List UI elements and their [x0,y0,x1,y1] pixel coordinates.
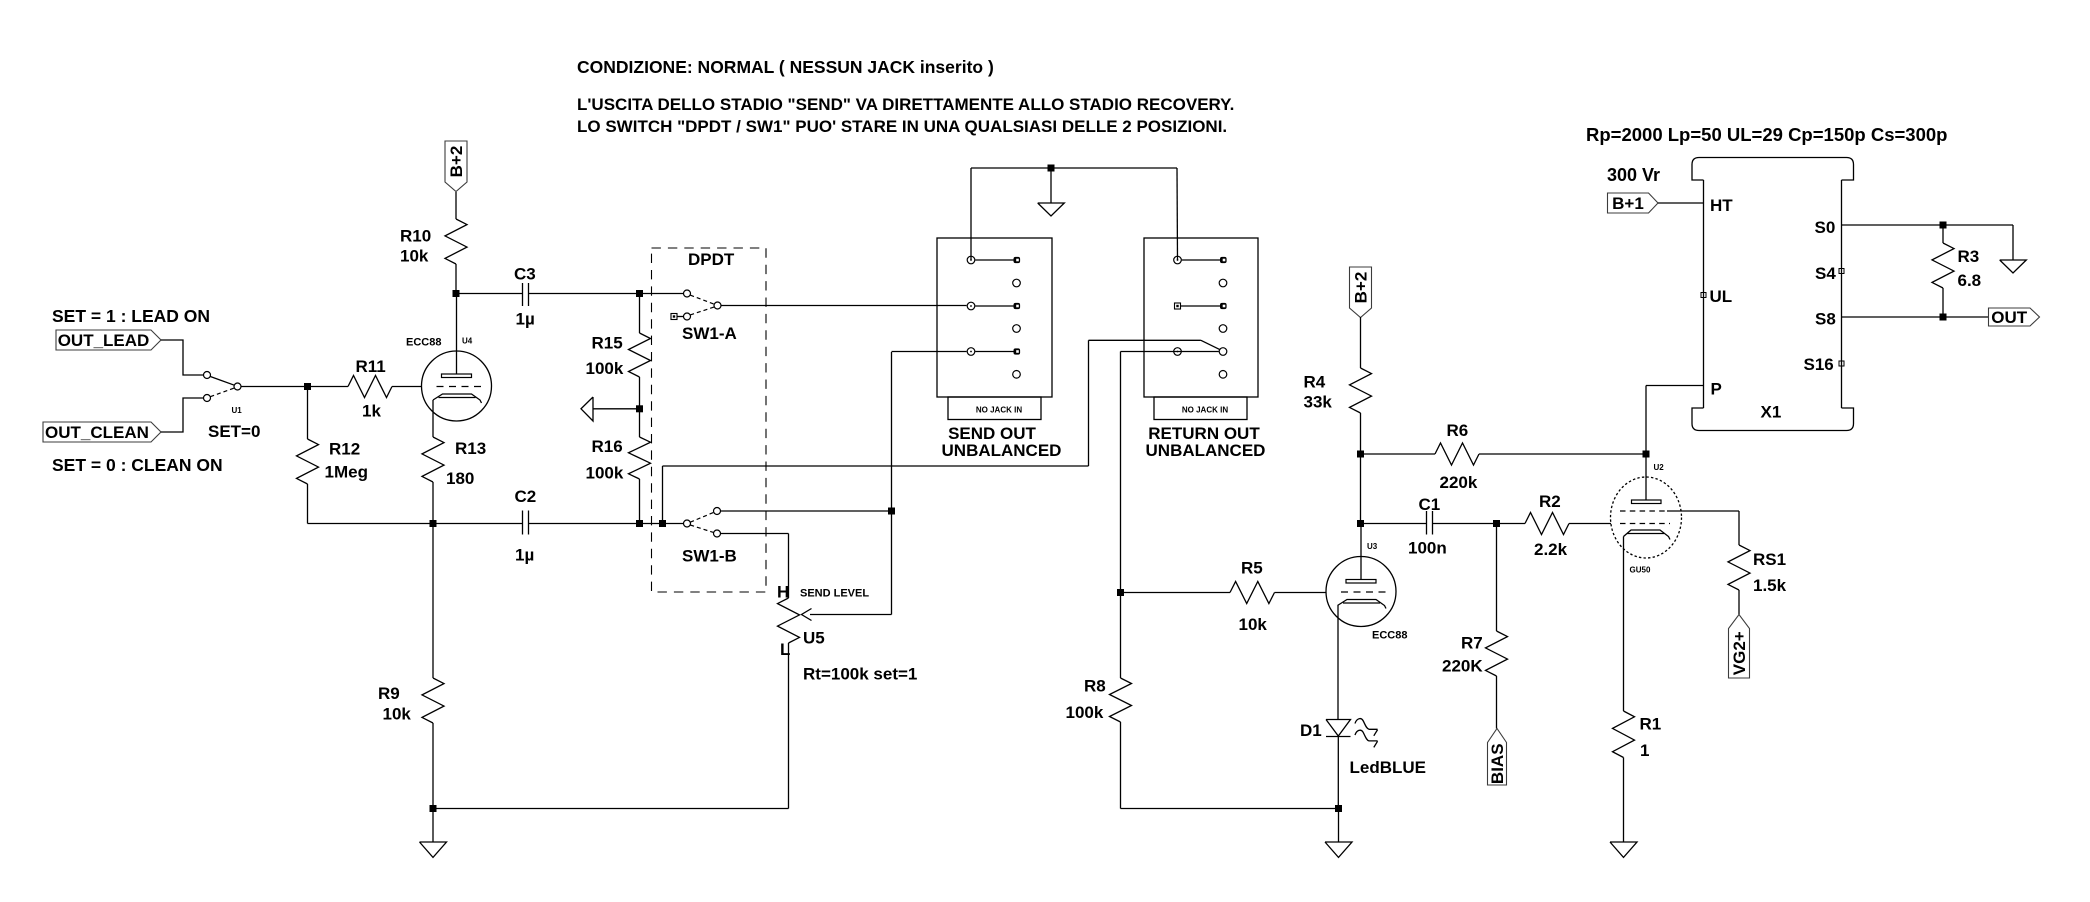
svg-text:R3: R3 [1958,247,1980,266]
svg-text:LO SWITCH "DPDT / SW1" PUO' ST: LO SWITCH "DPDT / SW1" PUO' STARE IN UNA… [577,117,1227,136]
tube U4 ECC88 triode [422,294,492,422]
junction R4 bottom [1357,451,1364,458]
junction S8-R3 [1940,314,1947,321]
svg-text:C2: C2 [515,487,537,506]
net flag B+1 [1608,193,1659,213]
arrow port (divider tap) [581,397,640,421]
label LedBLUE [1350,758,1427,777]
resistor R9 [422,678,444,809]
note: SET=0 CLEAN ON [52,455,223,475]
ground (bottom left) [420,809,447,858]
svg-text:L'USCITA DELLO STADIO "SEND" V: L'USCITA DELLO STADIO "SEND" VA DIRETTAM… [577,95,1234,114]
wire to SW1-A [640,293,684,295]
svg-text:UNBALANCED: UNBALANCED [942,441,1062,460]
junction R13 row [430,520,437,527]
value 1.5k [1753,576,1787,595]
label R6 [1447,421,1469,440]
value 220K [1442,657,1483,676]
svg-text:R15: R15 [592,334,623,353]
wire to send jack tip [892,351,967,353]
label DPDT [688,250,735,269]
power flag B+2 (right) [1350,267,1372,318]
net flag OUT_CLEAN [43,422,161,442]
wire S0 to ground [2012,225,2014,260]
net flag OUT [1989,308,2040,327]
svg-text:UNBALANCED: UNBALANCED [1146,441,1266,460]
jack J2 NO JACK IN box [1154,397,1247,420]
note: SET=1 LEAD ON [52,306,210,326]
svg-text:U4: U4 [462,337,473,346]
value 1 [1640,741,1649,760]
label X1 [1761,403,1782,422]
svg-text:100k: 100k [586,359,624,378]
DPDT dashed box [652,248,767,592]
value 100n [1408,539,1447,558]
label UNBALANCED (return) [1146,441,1266,460]
value 100k (R15) [586,359,624,378]
label L [780,640,790,659]
potentiometer U5 [778,598,800,643]
switch U1 [204,372,243,416]
node anode junction [453,290,460,297]
net flag BIAS [1488,729,1508,786]
note Rt=100k set=1 [803,665,917,684]
junction SW1-B input [659,520,666,527]
label S8 [1815,310,1836,329]
jack J2 RETURN OUT [1144,238,1258,397]
junction U2 anode [1643,451,1650,458]
wire anode to P [1646,386,1704,455]
junction DPDT rail top [636,290,643,297]
label R11 [356,357,386,376]
svg-text:B+2: B+2 [447,146,466,178]
wire bottom return to pot [433,643,789,809]
svg-text:GU50: GU50 [1630,566,1651,575]
wiper arrow head [802,609,812,621]
wire U2 cathode to R1 [1623,537,1625,712]
label U4 [462,337,473,346]
svg-text:10k: 10k [400,247,429,266]
value 10k [400,247,429,266]
label C1 [1419,495,1441,514]
label R3 [1958,247,1980,266]
label C3 [514,265,536,284]
svg-text:RS1: RS1 [1753,550,1786,569]
label UL [1710,287,1733,306]
svg-text:R12: R12 [329,440,360,459]
resistor R15 [629,294,651,409]
svg-text:S16: S16 [1804,355,1834,374]
wire bottom center [1121,808,1339,810]
value 2.2k [1534,540,1568,559]
value 100k (R16) [586,464,624,483]
svg-text:R4: R4 [1304,373,1326,392]
svg-text:300 Vr: 300 Vr [1607,165,1660,185]
svg-text:SET = 1 : LEAD ON: SET = 1 : LEAD ON [52,306,210,326]
svg-text:DPDT: DPDT [688,250,735,269]
node A junction [304,383,311,390]
junction top ground [1048,165,1055,172]
svg-text:B+1: B+1 [1612,194,1644,213]
value 1Meg [325,463,368,482]
resistor R2 [1525,513,1569,535]
svg-text:1µ: 1µ [515,546,534,565]
wire SW1-B NO to send-level node [721,510,892,512]
switch SW1-B [684,508,721,538]
wire jack grounds [971,168,1178,260]
value 1u [516,310,535,329]
junction bottom left [430,805,437,812]
svg-text:U2: U2 [1654,463,1665,472]
wire R4 to R6 [1361,453,1436,455]
pin UL square [1701,293,1706,298]
label R1 [1640,715,1662,734]
wire anode to C3 [456,293,523,295]
svg-text:R16: R16 [592,437,623,456]
svg-text:S4: S4 [1815,264,1836,283]
wire B+2 to R4 [1360,317,1362,368]
wire node to R5 [1121,592,1231,594]
ground (center) [1325,809,1352,858]
label SW1-A [682,324,737,343]
svg-text:R13: R13 [455,439,486,458]
svg-text:NO JACK IN: NO JACK IN [1182,406,1228,415]
svg-text:L: L [780,640,790,659]
label SET=0 [208,422,260,441]
wire anode to C1 [1361,523,1427,525]
wire C2 row left [308,523,523,525]
wire return tip to R5 node [1121,352,1219,593]
wire OUT_CLEAN to switch [161,398,204,432]
svg-text:P: P [1711,380,1722,399]
wire node A to R11 [308,386,349,388]
junction C1-R2-R7 [1493,520,1500,527]
svg-text:C1: C1 [1419,495,1441,514]
wire R6 to U2 anode [1479,453,1646,455]
junction send-level [888,508,895,515]
label R10 [400,227,431,246]
jack J1 NO JACK IN box [948,397,1041,420]
junction S0-R3 [1940,222,1947,229]
svg-text:B+2: B+2 [1352,272,1371,304]
label R4 [1304,373,1326,392]
svg-text:BIAS: BIAS [1488,743,1507,784]
label S4 [1815,264,1836,283]
svg-text:HT: HT [1710,196,1733,215]
note: send stage comment line 2 [577,117,1227,136]
tube U2 GU50 pentode [1611,477,1682,558]
label R2 [1539,492,1561,511]
wire node to R2 [1497,523,1526,525]
wire U2 g2 to RS1 [1667,511,1739,545]
label SEND OUT [948,424,1036,443]
svg-text:S0: S0 [1815,218,1836,237]
svg-text:1k: 1k [362,402,381,421]
wire wiper [810,352,892,615]
svg-text:100n: 100n [1408,539,1447,558]
pin S4 square [1839,269,1844,274]
svg-text:R8: R8 [1084,677,1106,696]
wire send to return NC [663,340,1221,523]
wire OUT_LEAD to switch [161,340,204,375]
ground (S0) [2000,260,2027,273]
svg-text:OUT_LEAD: OUT_LEAD [58,331,150,350]
label R5 [1241,559,1263,578]
resistor R6 [1435,443,1479,465]
wire U3 anode rail [1360,454,1362,524]
svg-text:SEND LEVEL: SEND LEVEL [800,588,869,600]
svg-text:H: H [777,583,789,602]
svg-text:OUT_CLEAN: OUT_CLEAN [45,423,149,442]
svg-text:CONDIZIONE: NORMAL ( NESSUN JA: CONDIZIONE: NORMAL ( NESSUN JACK inserit… [577,57,994,77]
svg-text:220K: 220K [1442,657,1483,676]
value 180 [446,469,474,488]
svg-text:33k: 33k [1304,393,1333,412]
svg-text:220k: 220k [1440,473,1478,492]
value 6.8 [1958,271,1982,290]
label R12 [329,440,360,459]
label RS1 [1753,550,1786,569]
wire C1 to node [1433,523,1497,525]
svg-text:SET = 0 : CLEAN ON: SET = 0 : CLEAN ON [52,455,223,475]
resistor RS1 [1728,545,1750,615]
net flag VG2+ [1729,615,1750,679]
diode D1 LedBLUE [1326,720,1351,809]
wire B+2 to R10 [455,192,457,219]
junction D1 ground [1335,805,1342,812]
label U2 [1654,463,1665,472]
label H [777,583,789,602]
junction divider mid [636,405,643,412]
resistor R13 [422,437,444,524]
label UNBALANCED (send) [942,441,1062,460]
wire node to R9 [432,524,434,679]
wire R5 to U3 grid [1275,592,1327,594]
svg-text:ECC88: ECC88 [1372,630,1407,642]
wire switch common to node A [241,386,308,388]
note 300 Vr [1607,165,1660,185]
value 1k [362,402,381,421]
label R16 [592,437,623,456]
switch SW1-A [671,290,721,320]
label HT [1710,196,1733,215]
svg-text:1Meg: 1Meg [325,463,368,482]
resistor R10 [445,219,467,294]
label S16 [1804,355,1834,374]
svg-text:C3: C3 [514,265,536,284]
label R7 [1461,634,1483,653]
resistor R7 [1486,524,1508,729]
label U5 [803,629,825,648]
resistor R1 [1613,711,1635,842]
value 100k (R8) [1066,703,1104,722]
svg-text:U3: U3 [1367,542,1378,551]
transformer X1 outline [1692,158,1854,431]
label U3 [1367,542,1378,551]
resistor R4 [1350,368,1372,454]
wire U2 anode [1645,454,1647,500]
note: transformer parameters [1586,124,1947,145]
label R8 [1084,677,1106,696]
label P [1711,380,1722,399]
note: condition comment [577,57,994,77]
value 10k (R9) [383,705,412,724]
svg-text:Rt=100k set=1: Rt=100k set=1 [803,665,917,684]
net flag OUT_LEAD [56,330,161,350]
wire B+1 to HT [1658,202,1704,204]
svg-text:10k: 10k [1239,615,1268,634]
wire C2 to SW1-B [529,523,684,525]
svg-text:1µ: 1µ [516,310,535,329]
label R9 [378,684,400,703]
svg-text:100k: 100k [1066,703,1104,722]
svg-text:R7: R7 [1461,634,1483,653]
wire SW1-A to send jack [721,305,967,307]
wire R2 to U2 grid [1569,523,1611,525]
value 10k (R5) [1239,615,1268,634]
note: send stage comment line 1 [577,95,1234,114]
svg-text:S8: S8 [1815,310,1836,329]
svg-text:VG2+: VG2+ [1730,631,1749,675]
svg-text:1.5k: 1.5k [1753,576,1787,595]
resistor R16 [629,409,651,524]
pin S16 square [1839,361,1844,366]
svg-text:SW1-B: SW1-B [682,547,737,566]
resistor R12 [297,387,319,524]
junction R16 bottom [636,520,643,527]
svg-text:180: 180 [446,469,474,488]
junction R5 node [1117,589,1124,596]
svg-text:R1: R1 [1640,715,1662,734]
label D1 [1300,721,1322,740]
resistor R5 [1230,582,1275,604]
svg-text:R9: R9 [378,684,400,703]
svg-text:2.2k: 2.2k [1534,540,1568,559]
svg-text:OUT: OUT [1991,308,2028,327]
svg-text:UL: UL [1710,287,1733,306]
jack J1 SEND OUT [937,238,1052,397]
tube U3 ECC88 triode [1326,524,1396,627]
resistor R8 [1110,593,1132,809]
junction U3 anode [1357,520,1364,527]
capacitor C1 [1427,511,1433,535]
value 220k [1440,473,1478,492]
svg-text:U1: U1 [232,406,243,415]
ground (top) [1038,168,1065,216]
svg-text:100k: 100k [586,464,624,483]
svg-text:6.8: 6.8 [1958,271,1982,290]
svg-text:10k: 10k [383,705,412,724]
resistor R11 [348,376,392,398]
power flag B+2 (left) [445,141,467,192]
svg-text:ECC88: ECC88 [406,337,441,349]
label C2 [515,487,537,506]
capacitor C2 [523,511,529,535]
svg-text:LedBLUE: LedBLUE [1350,758,1427,777]
label SEND LEVEL [800,588,869,600]
wire R11 to U4 grid [392,386,422,388]
cathode lead U4 to R13 [432,400,434,437]
svg-text:D1: D1 [1300,721,1322,740]
wire S0 [1842,224,2014,226]
wire SW1-B NC to pot top [721,534,789,599]
LED light arrows [1355,719,1378,748]
wire S8 to OUT [1842,316,1989,318]
label R15 [592,334,623,353]
svg-text:SET=0: SET=0 [208,422,260,441]
label ECC88 (U4) [406,337,441,349]
resistor R3 [1932,225,1954,317]
wire C3 to DPDT rail [529,293,640,295]
svg-text:R11: R11 [356,357,386,376]
label GU50 [1630,566,1651,575]
svg-text:X1: X1 [1761,403,1782,422]
ground (right) [1610,842,1637,857]
value 1u (C2) [515,546,534,565]
svg-text:R10: R10 [400,227,431,246]
svg-text:SW1-A: SW1-A [682,324,737,343]
svg-text:U5: U5 [803,629,825,648]
svg-text:NO JACK IN: NO JACK IN [976,406,1022,415]
wire U3 cathode to D1 [1337,606,1339,720]
label ECC88 (U3) [1372,630,1407,642]
label RETURN OUT [1148,424,1260,443]
value 33k [1304,393,1333,412]
label SW1-B [682,547,737,566]
svg-text:R6: R6 [1447,421,1469,440]
svg-text:R2: R2 [1539,492,1561,511]
label R13 [455,439,486,458]
capacitor C3 [523,283,529,306]
label S0 [1815,218,1836,237]
svg-text:1: 1 [1640,741,1649,760]
svg-text:R5: R5 [1241,559,1263,578]
svg-text:Rp=2000 Lp=50 UL=29 Cp=150p Cs: Rp=2000 Lp=50 UL=29 Cp=150p Cs=300p [1586,124,1947,145]
